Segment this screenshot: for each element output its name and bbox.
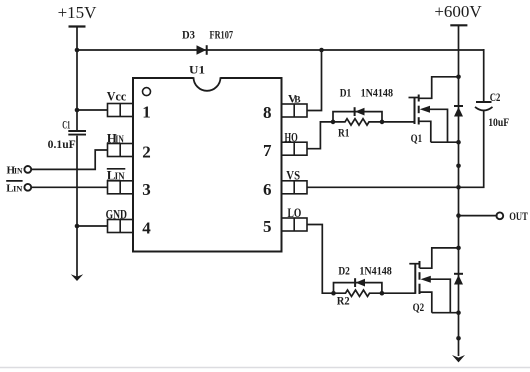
svg-text:3: 3 — [142, 180, 151, 199]
node rail mid lower — [456, 336, 461, 341]
diode D3 — [197, 45, 207, 55]
pin 6 pad VS — [282, 181, 308, 194]
pin 4 pad GND — [108, 220, 134, 233]
node Q1 source — [456, 140, 461, 145]
svg-text:D1: D1 — [340, 88, 352, 100]
node VS crossing — [456, 185, 461, 190]
wire C2 top — [483, 49, 485, 101]
wire GND pin to rail — [77, 225, 108, 227]
wire D3 rail horizontal — [77, 49, 484, 51]
node junction left rail / Vcc — [75, 108, 80, 113]
svg-text:D2: D2 — [338, 265, 350, 277]
node R1 left — [331, 120, 336, 125]
svg-text:Q1: Q1 — [411, 133, 423, 145]
node Q1 drain — [456, 75, 461, 80]
svg-text:C2: C2 — [490, 92, 501, 104]
svg-text:IN: IN — [14, 165, 23, 175]
svg-text:+15V: +15V — [58, 3, 98, 22]
svg-text:R1: R1 — [338, 127, 350, 139]
wire main rail vertical — [458, 25, 460, 356]
ground (left) — [71, 274, 83, 281]
node junction left rail / GND pin — [75, 224, 80, 229]
svg-text:Q2: Q2 — [413, 302, 425, 314]
svg-text:1: 1 — [142, 103, 151, 122]
node R1 right — [380, 120, 385, 125]
diode D2 — [334, 278, 382, 293]
capacitor C2 — [475, 102, 493, 110]
resistor R1 — [333, 119, 382, 125]
node rail mid upper — [456, 164, 461, 169]
wire R1 to Q1 gate — [382, 121, 415, 123]
terminal OUT circle — [496, 212, 503, 219]
pin 1 pad Vcc — [108, 104, 134, 117]
svg-text:U1: U1 — [189, 63, 205, 77]
wire HO to R1 network — [307, 122, 333, 149]
terminal HIN circle — [24, 166, 31, 173]
svg-text:IN: IN — [13, 183, 23, 193]
svg-text:8: 8 — [263, 103, 272, 122]
svg-text:2: 2 — [142, 143, 151, 162]
diode body Q2 — [454, 274, 463, 285]
wire LO to R2 network — [307, 225, 334, 294]
wire LIN input to pin 3 — [31, 186, 107, 188]
pin 8 pad VB — [282, 104, 308, 117]
svg-text:R2: R2 — [337, 296, 350, 308]
svg-text:FR107: FR107 — [210, 30, 234, 42]
terminal LIN circle — [24, 184, 31, 191]
resistor R2 — [334, 290, 382, 296]
transistor Q2 — [409, 248, 458, 313]
node OUT — [456, 213, 461, 218]
node R2 left — [331, 291, 336, 296]
svg-text:1N4148: 1N4148 — [359, 265, 392, 277]
node junction D3 rail / VB branch — [319, 48, 324, 53]
pin 7 pad HO — [282, 142, 308, 155]
pin 1 indicator circle — [143, 88, 151, 96]
node junction left rail / D3 rail — [75, 48, 80, 53]
wire HIN input to pin 2 — [31, 150, 107, 169]
ground (right) — [452, 355, 465, 362]
svg-text:10uF: 10uF — [488, 117, 509, 129]
svg-text:Vcc: Vcc — [107, 89, 127, 104]
transistor Q1 — [409, 77, 459, 142]
wire Vcc — [77, 109, 108, 111]
op-amp U1 IC body — [133, 77, 282, 251]
node Q2 source — [456, 310, 461, 315]
wire OUT — [459, 215, 498, 217]
svg-text:6: 6 — [263, 180, 272, 199]
+600V terminal bar — [450, 24, 467, 26]
diode body Q1 — [454, 106, 463, 117]
svg-text:+600V: +600V — [434, 2, 482, 21]
pin 5 pad LO — [282, 218, 308, 231]
label LIN (overline) — [107, 168, 126, 183]
svg-text:5: 5 — [263, 217, 272, 236]
node R2 right — [380, 291, 385, 296]
wire VS to switch node and C2 — [307, 111, 484, 187]
svg-text:7: 7 — [263, 141, 272, 160]
wire R2 to Q2 gate — [382, 292, 415, 294]
capacitor C1 plates — [75, 130, 79, 136]
pin 2 pad HIN — [108, 144, 134, 157]
+15V terminal bar — [69, 25, 86, 27]
svg-text:C1: C1 — [62, 119, 70, 131]
pin 3 pad LIN — [108, 181, 134, 194]
svg-text:OUT: OUT — [509, 211, 528, 223]
wire VB to bootstrap rail — [307, 50, 322, 111]
svg-text:0.1uF: 0.1uF — [48, 139, 76, 151]
bottom page border line — [0, 367, 530, 369]
wire left rail vertical — [76, 27, 78, 278]
svg-text:D3: D3 — [182, 30, 195, 42]
label LIN input (overline) — [6, 181, 23, 194]
diode D1 — [333, 107, 382, 122]
svg-text:4: 4 — [142, 219, 151, 238]
node Q2 drain — [456, 246, 461, 251]
svg-text:1N4148: 1N4148 — [361, 88, 394, 100]
